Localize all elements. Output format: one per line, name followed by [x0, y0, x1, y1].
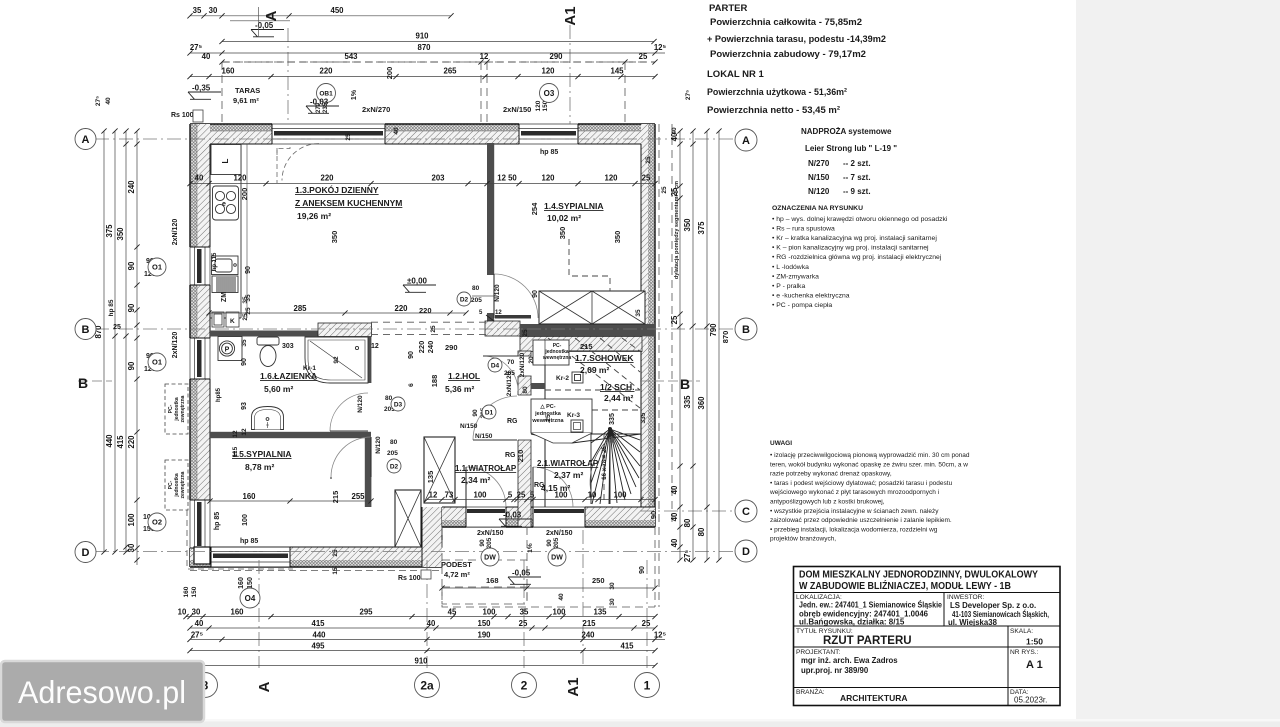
svg-text:135: 135 [593, 608, 607, 617]
svg-text:25: 25 [642, 174, 651, 183]
svg-text:495: 495 [311, 642, 325, 651]
svg-text:870: 870 [721, 331, 730, 344]
svg-text:2,09 m²: 2,09 m² [580, 365, 609, 375]
svg-text:45: 45 [448, 608, 457, 617]
svg-text:• P - pralka: • P - pralka [772, 283, 805, 290]
svg-text:5,60 m²: 5,60 m² [264, 384, 293, 394]
svg-text:350: 350 [330, 231, 339, 244]
svg-text:210: 210 [516, 450, 525, 463]
svg-text:40: 40 [670, 538, 679, 547]
svg-text:upr.proj. nr 389/90: upr.proj. nr 389/90 [801, 666, 869, 675]
svg-text:190: 190 [477, 630, 491, 639]
svg-text:90: 90 [649, 511, 658, 519]
PARTER info block [707, 3, 886, 116]
svg-text:40: 40 [670, 512, 679, 521]
svg-text:• PC - pompa ciepła: • PC - pompa ciepła [772, 302, 832, 309]
svg-text:254: 254 [530, 202, 539, 215]
svg-text:hp 85: hp 85 [540, 149, 558, 156]
svg-text:Kr-2: Kr-2 [556, 375, 569, 382]
svg-text:40: 40 [558, 593, 565, 601]
svg-text:40: 40 [671, 127, 678, 135]
svg-text:160: 160 [238, 577, 245, 589]
svg-text:O2: O2 [152, 518, 162, 527]
grid bubble B left [75, 319, 96, 340]
svg-text:1%: 1% [351, 89, 358, 100]
svg-text:-- 9 szt.: -- 9 szt. [843, 187, 871, 196]
svg-text:150: 150 [191, 586, 198, 597]
kitchen counter [210, 144, 241, 318]
svg-text:1.3.POKÓJ DZIENNY: 1.3.POKÓJ DZIENNY [295, 184, 379, 195]
svg-text:O1: O1 [152, 263, 162, 272]
svg-text:1.5.SYPIALNIA: 1.5.SYPIALNIA [232, 449, 292, 459]
svg-text:90: 90 [127, 361, 136, 370]
svg-text:375: 375 [105, 224, 114, 238]
svg-text:D4: D4 [491, 362, 500, 369]
svg-text:30: 30 [209, 6, 218, 15]
svg-text:DW: DW [484, 555, 496, 562]
dylatacja joint dashed [659, 124, 672, 607]
svg-text:2xN/270: 2xN/270 [362, 105, 390, 114]
dashed ceiling line bedroom1.4 [569, 239, 610, 291]
svg-text:2,34 m²: 2,34 m² [461, 475, 490, 485]
svg-text:TARAS: TARAS [235, 86, 260, 95]
svg-text:80: 80 [697, 527, 706, 536]
svg-text:N/120: N/120 [494, 284, 501, 302]
svg-text:Powierzchnia całkowita - 7: Powierzchnia całkowita - 75,85m2 [710, 17, 862, 28]
PC jednostka wewnetrzna upper [533, 340, 571, 365]
svg-text:UWAGI: UWAGI [770, 440, 792, 447]
bathroom sink [252, 407, 284, 430]
svg-text:120: 120 [604, 174, 618, 183]
svg-text:92: 92 [333, 356, 340, 364]
svg-text:LS Developer Sp. z o.o.: LS Developer Sp. z o.o. [950, 601, 1036, 610]
svg-text:4,72 m²: 4,72 m² [444, 570, 470, 579]
window O1 lower left [189, 338, 211, 379]
svg-text:• Rs – rura spustowa: • Rs – rura spustowa [772, 226, 835, 233]
svg-text:projektów branżowych,: projektów branżowych, [770, 536, 836, 543]
svg-text:1.6.ŁAZIENKA: 1.6.ŁAZIENKA [260, 371, 317, 381]
svg-text:910: 910 [414, 657, 428, 666]
svg-text:hp 115: hp 115 [212, 252, 218, 271]
svg-text:12: 12 [241, 428, 248, 436]
level +0,00 [403, 285, 436, 292]
living room dim row [187, 174, 657, 187]
svg-text:100: 100 [473, 491, 487, 500]
window bubble OB1 [317, 84, 336, 103]
svg-text:93: 93 [241, 402, 248, 410]
svg-text:90: 90 [639, 566, 646, 574]
svg-text:90: 90 [546, 539, 553, 547]
DW circle 1 [481, 548, 499, 566]
svg-text:90: 90 [245, 266, 252, 274]
svg-text:8,78 m²: 8,78 m² [245, 462, 274, 472]
svg-text:203: 203 [431, 174, 445, 183]
svg-text:350: 350 [116, 227, 125, 241]
staircase winder treads [531, 427, 641, 504]
svg-text:35: 35 [241, 339, 248, 347]
svg-text:hp 85: hp 85 [214, 512, 221, 530]
hatched wall piece south of door D2b [485, 321, 520, 336]
level -0,03 entry [499, 519, 532, 526]
svg-text:antypoślizgowych lub z kostki: antypoślizgowych lub z kostki brukowej, [770, 499, 885, 506]
svg-text:N/120: N/120 [357, 395, 364, 413]
svg-text:200: 200 [240, 188, 249, 201]
svg-text:-0,05: -0,05 [255, 21, 274, 30]
svg-text:mgr inż. arch. Ewa Zadros: mgr inż. arch. Ewa Zadros [801, 656, 898, 665]
svg-text:NADPROŻA systemowe: NADPROŻA systemowe [801, 127, 892, 136]
svg-text:255: 255 [351, 492, 365, 501]
svg-text:360: 360 [697, 396, 706, 410]
svg-text:12⁵: 12⁵ [654, 630, 667, 639]
dishwasher ZM [212, 276, 238, 293]
svg-text:B: B [680, 376, 690, 392]
svg-text:240: 240 [426, 341, 435, 354]
svg-text:160: 160 [183, 586, 190, 597]
svg-text:25: 25 [639, 52, 648, 61]
dashed outline below bottom wall [190, 570, 442, 572]
svg-text:80: 80 [683, 518, 692, 527]
svg-text:30: 30 [127, 543, 136, 552]
svg-text:BRANŻA:: BRANŻA: [796, 687, 825, 696]
svg-text:razie potrzeby wykonać drenaż: razie potrzeby wykonać drenaż opaskowy, [770, 471, 892, 478]
svg-text:-0,03: -0,03 [503, 511, 522, 520]
svg-text:5: 5 [530, 491, 535, 500]
exterior top wall [190, 124, 655, 144]
svg-text:295: 295 [359, 608, 373, 617]
svg-text:RG: RG [505, 452, 516, 459]
level -0,35 taras [188, 92, 221, 99]
svg-text:N/150: N/150 [475, 433, 493, 440]
svg-text:D3: D3 [394, 401, 403, 408]
svg-text:• K – pion kanalizacyjny wg pr: • K – pion kanalizacyjny wg proj. instal… [772, 245, 929, 252]
right dimension columns [670, 128, 683, 562]
right gray margin [1076, 0, 1280, 720]
dashed beam over hall passage [371, 322, 486, 334]
svg-text:2,44 m²: 2,44 m² [604, 393, 633, 403]
wiatrolap dim row [424, 491, 657, 503]
svg-text:1%: 1% [527, 543, 534, 553]
svg-text:dylatacja pomiędzy segmentami: dylatacja pomiędzy segmentami 5 cm [674, 181, 680, 279]
svg-text:215: 215 [331, 491, 340, 504]
svg-text:2xN/150: 2xN/150 [546, 530, 573, 537]
svg-text:35: 35 [635, 309, 642, 317]
svg-text:15: 15 [332, 567, 339, 575]
svg-text:415: 415 [311, 619, 325, 628]
svg-text:B: B [742, 324, 750, 336]
svg-text:12: 12 [429, 491, 438, 500]
svg-text:40: 40 [670, 485, 679, 494]
svg-text:5,36 m²: 5,36 m² [445, 384, 474, 394]
grid bubble A right [735, 129, 757, 151]
exterior left wall [190, 124, 210, 567]
svg-text:teren, wokół budynku wykonać o: teren, wokół budynku wykonać opaskę ze ż… [770, 461, 968, 468]
svg-text:215: 215 [582, 619, 596, 628]
svg-text:240: 240 [581, 630, 595, 639]
window bubble O1 upper [148, 258, 166, 276]
svg-text:1.1.WIATROŁAP: 1.1.WIATROŁAP [455, 464, 517, 473]
svg-text:450: 450 [330, 6, 344, 15]
svg-text:K: K [230, 318, 235, 325]
svg-text:160: 160 [230, 608, 244, 617]
wardrobe bedroom 1.4 [539, 291, 645, 324]
svg-text:220: 220 [419, 306, 432, 315]
window O1 upper left [189, 247, 211, 285]
svg-text:25: 25 [113, 324, 121, 331]
porch podest dashed outline [442, 527, 655, 607]
axis D horizontal [95, 551, 757, 553]
staircase upper flight dashed [532, 338, 641, 502]
svg-text:Leier Strong lub " L-19 ": Leier Strong lub " L-19 " [805, 144, 897, 153]
svg-text:40: 40 [195, 619, 204, 628]
svg-text:Jedn. ew.: 247401_1 Siemianowi: Jedn. ew.: 247401_1 Siemianowice Śląskie [799, 601, 942, 610]
svg-text:D2: D2 [460, 296, 469, 303]
svg-text:• Kr – kratka kanalizacyjna wg: • Kr – kratka kanalizacyjna wg proj. ins… [772, 235, 937, 242]
svg-text:100: 100 [127, 513, 136, 527]
svg-text:PARTER: PARTER [709, 3, 747, 14]
door D2 bedroom1.5 arc [331, 437, 371, 477]
partition bathroom/bedroom wall [210, 432, 371, 438]
svg-text:350: 350 [613, 231, 622, 244]
svg-text:D1: D1 [485, 409, 494, 416]
svg-text:1: 1 [644, 678, 651, 692]
svg-text:Powierzchnia zabudowy - 79: Powierzchnia zabudowy - 79,17m2 [710, 49, 866, 60]
OZNACZENIA block [772, 205, 948, 309]
shower with Kr-1 [305, 337, 368, 383]
svg-text:220: 220 [394, 304, 408, 313]
svg-text:Rs 100: Rs 100 [171, 112, 194, 119]
svg-text:Z ANEKSEM KUCHENNYM: Z ANEKSEM KUCHENNYM [295, 198, 402, 208]
grid bubble D right [735, 540, 757, 562]
svg-text:150: 150 [247, 577, 254, 589]
svg-text:e: e [222, 201, 226, 208]
terrace dashed outline [222, 62, 655, 124]
svg-text:350: 350 [558, 227, 567, 240]
svg-text:40: 40 [393, 127, 400, 135]
partition bedroom1.5 east wall [365, 438, 372, 507]
svg-text:12: 12 [480, 52, 489, 61]
svg-text:25: 25 [517, 491, 526, 500]
svg-text:D: D [742, 546, 750, 558]
door OB1 balcony swing (dashed) [277, 144, 319, 184]
svg-text:27⁵: 27⁵ [190, 43, 203, 52]
entry step wall connector [422, 507, 442, 567]
svg-text:1/2 SCH.: 1/2 SCH. [600, 382, 635, 392]
Kr-2 drain [572, 372, 583, 383]
svg-text:• taras i podest wejściowy dyl: • taras i podest wejściowy dylatować; po… [770, 480, 953, 487]
kitchen bottom row [206, 304, 468, 316]
svg-text:• ZM-zmywarka: • ZM-zmywarka [772, 273, 819, 280]
svg-text:2.1.WIATROŁAP: 2.1.WIATROŁAP [537, 459, 599, 468]
svg-text:10: 10 [588, 491, 597, 500]
svg-text:wejściowego wykonać z płyt ta: wejściowego wykonać z płyt tarasowych mr… [769, 489, 939, 496]
bedroom1.4 south wall [520, 324, 655, 336]
svg-text:250: 250 [592, 576, 605, 585]
svg-text:40: 40 [202, 52, 211, 61]
svg-text:25: 25 [519, 619, 528, 628]
washing machine P [218, 337, 242, 361]
svg-text:375: 375 [697, 221, 706, 235]
svg-text:90: 90 [127, 261, 136, 270]
svg-text:Powierzchnia netto - 53,45: Powierzchnia netto - 53,45 m² [707, 105, 840, 116]
grid bubble A left [75, 129, 96, 150]
vertical axes [259, 25, 647, 668]
svg-text:335: 335 [683, 395, 692, 409]
svg-text:290: 290 [549, 52, 563, 61]
svg-text:N/150: N/150 [460, 423, 478, 430]
window O3 2xN/150 [519, 123, 578, 145]
svg-text:5: 5 [508, 491, 513, 500]
svg-text:10: 10 [178, 608, 187, 617]
svg-text:543: 543 [344, 52, 358, 61]
svg-text:80: 80 [390, 439, 398, 446]
svg-text:25: 25 [430, 325, 437, 333]
NADPROZA block [801, 127, 897, 196]
partition bathroom north wall [210, 331, 371, 337]
schowek north wall hatched [520, 336, 642, 351]
svg-text:350: 350 [683, 218, 692, 232]
window bubble O3 [540, 84, 559, 103]
svg-text:1.7.SCHOWEK: 1.7.SCHOWEK [575, 353, 634, 363]
svg-text:188: 188 [430, 375, 439, 388]
axis B horizontal [95, 328, 757, 330]
svg-text:25: 25 [545, 414, 552, 422]
svg-text:220: 220 [127, 435, 136, 449]
svg-text:2xN/150: 2xN/150 [503, 105, 531, 114]
svg-text:120: 120 [541, 67, 555, 76]
svg-text:2xN/120: 2xN/120 [506, 371, 513, 396]
svg-text:220: 220 [319, 67, 333, 76]
svg-text:2: 2 [521, 678, 528, 692]
entry DW2 arc [533, 467, 573, 507]
svg-text:O1: O1 [152, 358, 162, 367]
svg-text:RZUT PARTERU: RZUT PARTERU [823, 635, 912, 647]
window bubble O1 lower [148, 353, 166, 371]
svg-text:• przebieg instalacji, lokaliz: • przebieg instalacji, lokalizacja wodom… [770, 526, 938, 533]
exterior entry bottom wall [442, 507, 655, 527]
svg-text:30: 30 [192, 608, 201, 617]
svg-text:A 1: A 1 [1026, 659, 1043, 671]
svg-text:220: 220 [320, 174, 334, 183]
svg-text:90: 90 [408, 351, 415, 359]
svg-text:20: 20 [528, 356, 535, 364]
svg-text:100: 100 [552, 608, 566, 617]
svg-text:△ PC-: △ PC- [539, 403, 555, 410]
svg-text:35: 35 [242, 296, 249, 304]
svg-text:16 x 78 = 25: 16 x 78 = 25 [602, 446, 608, 480]
bottom dimension lines [178, 608, 658, 620]
svg-text:30: 30 [609, 598, 616, 606]
svg-text:168: 168 [486, 576, 499, 585]
svg-text:30: 30 [609, 582, 616, 590]
svg-text:415: 415 [116, 435, 125, 449]
svg-text:145: 145 [610, 67, 624, 76]
partition living/bedroom1.4 wall [487, 143, 494, 275]
svg-text:TYTUŁ RYSUNKU:: TYTUŁ RYSUNKU: [796, 628, 853, 635]
svg-text:40: 40 [427, 619, 436, 628]
stair walk line arc [590, 436, 612, 497]
svg-text:O3: O3 [544, 89, 555, 98]
svg-text:NR RYS.:: NR RYS.: [1010, 649, 1039, 656]
UWAGI block [769, 440, 970, 543]
toilet [257, 337, 279, 367]
svg-text:240: 240 [127, 180, 136, 194]
kitchen sink [212, 256, 239, 275]
svg-text:• izolację przeciwwilgociową p: • izolację przeciwwilgociową pionową wyp… [770, 452, 970, 459]
svg-text:RG: RG [534, 482, 545, 489]
svg-text:303: 303 [282, 343, 294, 350]
svg-text:ul. Wiejska38: ul. Wiejska38 [948, 618, 998, 627]
thick wall piece over shower [318, 323, 371, 337]
svg-text:-0,35: -0,35 [192, 84, 211, 93]
entry door-window DW2 [533, 506, 585, 528]
svg-text:160: 160 [242, 492, 256, 501]
svg-text:40: 40 [105, 97, 112, 105]
svg-text:O4: O4 [245, 594, 256, 603]
svg-text:1.2.HOL: 1.2.HOL [448, 371, 480, 381]
hall east wall hatched band [518, 351, 532, 527]
door D4 schowek arc [483, 356, 518, 391]
svg-text:100: 100 [242, 514, 249, 526]
svg-text:2xN/120: 2xN/120 [172, 332, 179, 359]
svg-text:27⁵: 27⁵ [683, 549, 692, 562]
svg-text:2a: 2a [420, 678, 434, 692]
svg-text:Adresowo.pl: Adresowo.pl [18, 674, 186, 710]
svg-text:PODEST: PODEST [441, 560, 472, 569]
svg-text:W ZABUDOWIE BLIŹNIACZEJ, MODUŁ: W ZABUDOWIE BLIŹNIACZEJ, MODUŁ LEWY - 1B [799, 579, 1011, 592]
svg-text:ARCHITEKTURA: ARCHITEKTURA [840, 693, 908, 703]
door D1 hall arc [473, 396, 517, 440]
svg-text:25: 25 [332, 549, 339, 557]
svg-text:2,37 m²: 2,37 m² [554, 470, 583, 480]
svg-text:25: 25 [661, 186, 668, 194]
svg-text:2xN/120: 2xN/120 [172, 219, 179, 246]
svg-text:25: 25 [522, 329, 529, 337]
svg-text:27⁵: 27⁵ [685, 90, 692, 100]
bottom gray strip [0, 719, 1280, 727]
svg-text:• hp – wys. dolnej krawędzi ot: • hp – wys. dolnej krawędzi otworu okien… [772, 216, 948, 223]
light dashed terrace outline bottom-left [187, 500, 293, 569]
entry door-window DW1 [466, 506, 506, 528]
axis B2 short [78, 380, 700, 382]
svg-text:12: 12 [371, 343, 379, 350]
svg-text:2xN/150: 2xN/150 [477, 530, 504, 537]
svg-text:200: 200 [385, 67, 394, 80]
svg-text:A: A [742, 135, 750, 147]
svg-text:zewnętrzna: zewnętrzna [180, 471, 186, 498]
ventilation shaft box B [395, 490, 421, 547]
svg-text:265: 265 [443, 67, 457, 76]
svg-text:27⁵: 27⁵ [191, 630, 204, 639]
svg-text:12 50: 12 50 [497, 174, 517, 183]
svg-text:25: 25 [345, 133, 352, 141]
svg-text:D2: D2 [390, 463, 399, 470]
svg-text:P: P [225, 347, 230, 354]
svg-text:135: 135 [426, 471, 435, 484]
window bubble O4 [240, 588, 260, 608]
window OB1 2xN/270 balcony [272, 123, 385, 145]
svg-text:335: 335 [609, 413, 616, 425]
PC jednostka zewnetrzna upper [165, 384, 188, 434]
svg-text:RG: RG [507, 418, 518, 425]
svg-text:D: D [82, 547, 90, 559]
svg-text:120: 120 [233, 174, 247, 183]
svg-text:-0,03: -0,03 [310, 98, 329, 107]
svg-text:B: B [78, 375, 88, 391]
grid bubble C right [735, 500, 757, 522]
PC jednostka zewnetrzna lower [165, 460, 188, 510]
window bubble O2 [148, 513, 166, 531]
svg-text:35: 35 [520, 608, 529, 617]
